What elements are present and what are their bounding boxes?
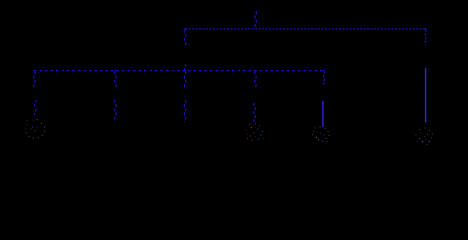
node: leaf icon 1 (under x=35): [25, 119, 45, 139]
wire: left branch drop lower segment (x=185, y 64-70): [184, 64, 186, 71]
wire: child drop upper (x=255.5, y 71-88): [254, 72, 256, 88]
junction: bus2 T at x=185: [184, 70, 185, 71]
node: leaf icon 4 (under x=425): [416, 128, 434, 146]
wire: leaf connector bright (x=322.8, y 101-127): [322, 101, 324, 127]
node: leaf icon 2 (under x=255): [245, 124, 264, 141]
wire: root connector (top vertical): [254, 11, 256, 29]
wire: level-1 horizontal bus: [185, 28, 426, 30]
wire: level-2 horizontal bus (y=70.5, x 34-324): [34, 70, 325, 72]
wire: leaf connector (x=254.5, y 103-122): [253, 103, 255, 122]
wire: child drop upper (x=115.5, y 71-88): [114, 72, 116, 88]
junction: bus2 right corner at (324,70.5): [324, 70, 325, 71]
wire: right branch drop dashed segment (x=425.5, y 29-45): [425, 30, 427, 46]
wire: leaf connector (x=35, y 100-118): [34, 100, 36, 118]
junction: bus1 right corner at (425.5,29): [425, 28, 426, 29]
wire: child drop upper (x=185, y 71-88): [184, 72, 186, 89]
node: leaf icon 3 (under x=323): [312, 127, 330, 143]
junction: bus1 left corner at (185,29): [184, 28, 185, 29]
wire: leaf connector (x=115.5, y 100-121): [114, 100, 116, 120]
junction: bus2 left corner at (34,70.5): [34, 70, 35, 71]
wire: child drop upper (x=324, y 71-86): [323, 72, 325, 87]
junction: bus2 T at x=255.5: [255, 70, 256, 71]
wire: right branch connector solid bright (x=425.5, y 68-122): [425, 68, 427, 123]
junction: bus2 T at x=115.5: [115, 70, 116, 71]
wire: child drop upper (x=34.5, y 71-88): [33, 72, 35, 89]
wire: leaf connector (x=185, y 100-122): [184, 100, 186, 122]
wire: left branch drop upper segment (x=185, y 29-46): [184, 30, 186, 47]
